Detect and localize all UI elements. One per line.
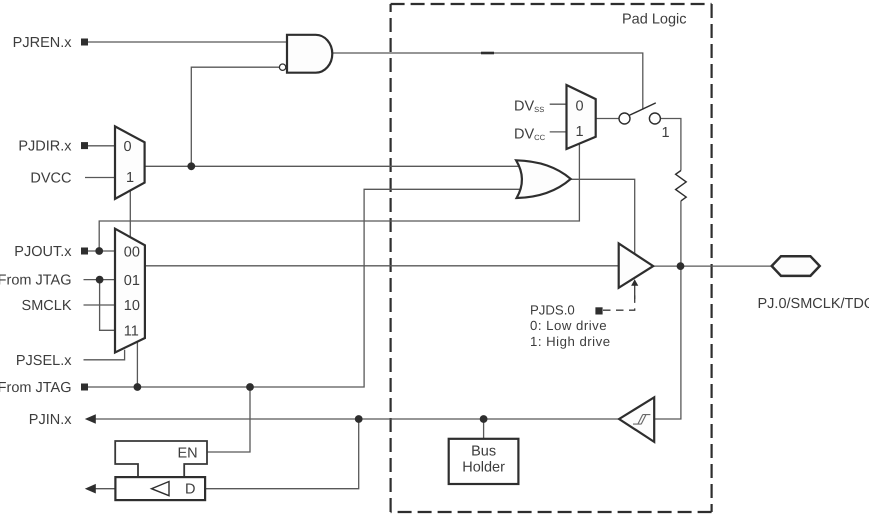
svg-text:D: D — [185, 482, 195, 498]
AND gate U4 — [287, 35, 332, 73]
wire node to AND inverted input B — [191, 67, 279, 166]
wire mux U3 output to switch — [596, 118, 619, 120]
svg-text:00: 00 — [124, 244, 140, 260]
svg-text:Bus: Bus — [471, 444, 496, 460]
wire From JTAG to mux U2 input 01 — [84, 279, 116, 281]
OR gate U5 — [516, 160, 571, 198]
svg-text:PJDS.0: PJDS.0 — [530, 303, 575, 318]
mux U1 PJDIR/DVCC — [115, 126, 145, 198]
wire DVCC to mux U3 input 1 — [550, 131, 567, 133]
svg-text:PJIN.x: PJIN.x — [29, 412, 72, 428]
Bus Holder box — [449, 439, 519, 484]
wire PJOUT.x to mux U2 input 00 — [88, 250, 115, 252]
svg-text:SMCLK: SMCLK — [22, 298, 72, 314]
wire driver output to pad — [653, 265, 772, 267]
arrowhead D latch out — [85, 484, 96, 494]
svg-text:1: High drive: 1: High drive — [530, 334, 611, 349]
svg-text:From JTAG: From JTAG — [0, 273, 72, 289]
wire bus holder stub — [483, 419, 485, 439]
svg-text:1: 1 — [126, 170, 134, 186]
wire PJDIR.x to mux U1 input 0 — [88, 145, 115, 147]
svg-text:From JTAG: From JTAG — [0, 380, 72, 396]
svg-text:0: 0 — [576, 98, 584, 114]
wire DVCC to mux U1 input 1 — [85, 177, 115, 179]
svg-text:PJOUT.x: PJOUT.x — [14, 244, 72, 260]
svg-text:DVCC: DVCC — [30, 171, 71, 187]
terminal square PJDIR.x — [81, 142, 88, 149]
wire From JTAG 2 branch to EN — [207, 387, 250, 452]
mux U2 output select — [115, 229, 145, 353]
junction node pad — [677, 262, 685, 270]
svg-text:10: 10 — [124, 298, 140, 314]
junction node EN branch — [246, 383, 254, 391]
mux U3 DVSS/DVCC pull select — [567, 85, 596, 149]
wire PJSEL.x to mux U2 select — [84, 350, 125, 360]
arrowhead PJIN.x — [85, 414, 96, 424]
svg-text:01: 01 — [124, 273, 140, 289]
wire mux U2 select 2 to From JTAG net — [136, 341, 138, 387]
svg-text:0: Low drive: 0: Low drive — [530, 318, 607, 333]
Pad Logic dashed border — [391, 4, 712, 512]
PJDS.0 dashed control with arrow — [603, 295, 635, 310]
D latch clock triangle — [152, 482, 170, 496]
junction node From JTAG 1 — [96, 276, 104, 284]
switch S1 circle left — [619, 113, 630, 124]
wire switch to resistor R1 — [660, 119, 681, 171]
wire From JTAG 2 to OR input B — [88, 189, 520, 387]
Schmitt trigger input buffer U7 — [619, 397, 654, 442]
resistor R1 — [676, 171, 687, 201]
wire OR output to driver enable — [571, 179, 635, 254]
wire resistor R1 to pad node — [680, 201, 682, 266]
svg-text:0: 0 — [124, 139, 132, 155]
EN latch enable box — [115, 441, 207, 477]
wire From JTAG branch to mux U2 input 11 — [100, 280, 115, 331]
terminal square PJREN.x — [81, 39, 88, 46]
svg-text:PJDIR.x: PJDIR.x — [18, 139, 72, 155]
wire PJIN.x line — [95, 418, 619, 420]
svg-text:11: 11 — [124, 324, 139, 340]
Schmitt hysteresis symbol — [633, 415, 650, 425]
svg-text:PJ.0/SMCLK/TDO: PJ.0/SMCLK/TDO — [758, 296, 869, 312]
D latch box — [115, 477, 205, 500]
pad hexagon PJ.0 — [772, 256, 820, 276]
wire PJREN.x to AND input A — [88, 41, 286, 43]
svg-text:PJSEL.x: PJSEL.x — [16, 353, 72, 369]
svg-text:Holder: Holder — [462, 460, 505, 476]
junction node select2 — [134, 383, 142, 391]
wire mux U2 output to output driver input — [145, 265, 619, 267]
svg-text:EN: EN — [178, 445, 198, 461]
wire PJOUT.x branch to mux U3 select — [99, 144, 579, 251]
wire D latch output to PJIN node — [205, 419, 359, 489]
junction node D output — [355, 415, 363, 423]
switch S1 lever — [629, 103, 655, 115]
wire mux U1 select to mux U2 top — [129, 191, 131, 238]
wire SMCLK to mux U2 input 10 — [84, 304, 116, 306]
wire AND output to switch control — [332, 53, 643, 110]
wire pad node to Schmitt input — [654, 266, 681, 419]
AND gate inverted input bubble — [279, 64, 285, 70]
junction node PJOUT — [95, 247, 103, 255]
terminal square PJDS.0 — [595, 307, 602, 314]
wire D latch to left arrow — [95, 488, 115, 490]
wire DVSS to mux U3 input 0 — [550, 103, 567, 105]
svg-text:Pad Logic: Pad Logic — [622, 12, 687, 28]
output driver buffer U6 — [619, 243, 654, 287]
switch S1 circle right — [649, 113, 660, 124]
svg-text:1: 1 — [576, 124, 584, 140]
svg-text:PJREN.x: PJREN.x — [13, 35, 73, 51]
terminal square From JTAG 2 — [81, 384, 88, 391]
junction node bus holder — [480, 415, 488, 423]
wire mux U1 output to OR input A — [145, 165, 520, 167]
junction node mux U1 output — [187, 162, 195, 170]
terminal square PJOUT.x — [81, 248, 88, 255]
thick overlap segment on AND output wire — [481, 52, 494, 55]
svg-text:1: 1 — [662, 125, 670, 141]
